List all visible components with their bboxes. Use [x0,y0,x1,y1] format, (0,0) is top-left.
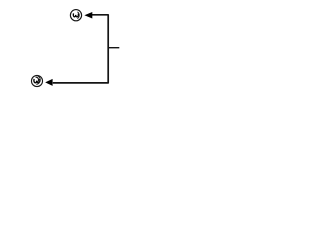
symbol S1 outer circle [70,10,81,21]
symbol S2 ripple arc 2 [36,76,40,85]
arrowhead into bottom symbol [45,79,52,86]
wire main route [53,15,108,83]
symbol S2 glyph omega [34,79,40,83]
arrowhead into top symbol [84,12,92,19]
symbol S1 inner arc [77,12,79,19]
node stub [108,47,119,49]
symbol S1 glyph omega [73,13,78,17]
symbol S2 outer circle [31,75,42,86]
symbol S2 ripple arc 1 [36,77,39,83]
